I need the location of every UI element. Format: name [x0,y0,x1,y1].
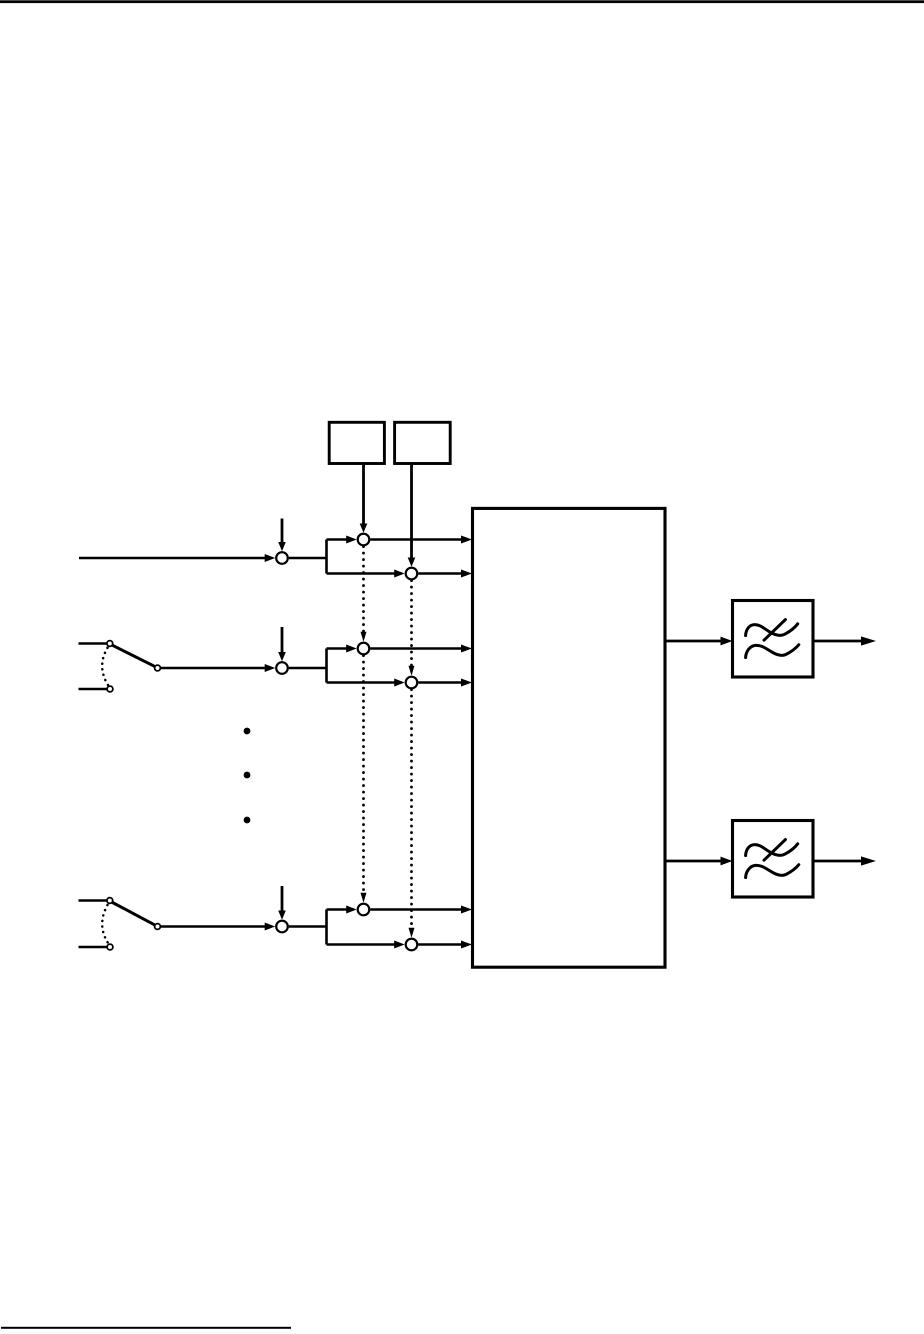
dotted bus arrow into M4 [409,666,415,676]
dotted bus: M2 to M4 [410,581,413,669]
wire: row2 gain arrow stem [281,627,284,654]
dotted bus: M4 to M6 [410,690,413,931]
switch SW1 travel arc (dotted) [102,648,108,685]
wire: row1 input [79,557,267,560]
mixer M5 [358,904,370,916]
filter F2 [733,821,814,898]
wire: row3 summer to splitter [289,925,327,928]
arrowheads [265,524,876,949]
wire: row2 switch stub upper [79,642,107,645]
wire: row2 M3 to U1 [370,647,464,650]
SW2 upper contact [107,898,113,904]
arrow row2 top into U1 [461,645,472,653]
junction circles [276,534,417,951]
arrow down into M1 from B1 [360,524,368,533]
wire: row1 splitter top branch [327,538,350,541]
arrow into F2 [721,857,733,866]
wire: row2 splitter bottom branch [327,681,398,684]
wire: row1 gain arrow stem [281,519,284,544]
dotted bus arrow into M3 [361,632,367,642]
switch SW2 travel arc (dotted) [102,905,108,943]
box B2 [395,422,451,463]
wire: U1 output 2 [665,860,724,863]
wire: row3 splitter top branch [327,908,350,911]
summer S3 [276,921,288,933]
arrow row3 top into U1 [461,906,472,914]
arrow into summer S3 [265,923,276,931]
wire: row1 splitter bottom branch [327,572,398,575]
switch contact circles [107,641,161,950]
switch SW2 lever [113,903,155,925]
wire: row1 M1 to U1 [370,538,464,541]
wire: row3 input [161,925,267,928]
dotted bus: M3 to M5 [362,656,365,896]
wire: row1 splitter bar [325,540,328,574]
mixer M3 [358,643,370,655]
mixer M6 [406,939,418,951]
SW1 upper contact [107,641,113,647]
arrow row1 bottom into U1 [461,570,472,578]
mixer M1 [358,534,370,546]
SW2 pole [155,924,161,930]
wire: row2 switch stub lower [79,688,107,691]
wire: row2 M4 to U1 [418,681,464,684]
wire: row1 summer to splitter [289,557,327,560]
filter F1 [733,601,814,678]
dotted bus arrow into M6 [409,928,415,938]
wire: B2 to mixer M2 (crosses row 1 line) [410,464,413,559]
arrow down into M2 from B2 [408,558,416,567]
wire: row3 splitter bar [325,910,328,945]
processor block U1 [473,508,666,967]
SW2 lower contact [107,944,113,950]
wire: U1 output 1 [665,640,724,643]
mixer M4 [406,677,418,689]
arrow F2 output [861,856,876,865]
arrow into F1 [721,637,733,646]
arrow into summer S1 [265,554,276,562]
box B1 [329,422,384,463]
wire: row3 gain arrow stem [281,886,284,912]
arrow into summer S2 [265,664,276,672]
arrow into mixer M3 [346,645,357,653]
arrow into mixer M6 [394,941,405,949]
arrow F1 output [861,636,876,645]
arrow into mixer M5 [346,906,357,914]
wire: F2 output [813,860,868,863]
arrow row3 bottom into U1 [461,941,472,949]
summer S2 [276,662,288,674]
wire: row3 switch stub lower [79,946,107,949]
SW1 lower contact [107,686,113,692]
wire: F1 output [813,640,868,643]
footnote rule [1,1327,291,1329]
switch SW1 lever [113,645,155,666]
arrow into mixer M2 [394,570,405,578]
arrow row2 bottom into U1 [461,679,472,687]
arrow down into S3 [278,911,286,920]
arrow into mixer M4 [394,679,405,687]
arrow down into S1 [278,542,286,551]
wire: B1 to mixer M1 [362,464,365,526]
wire: row2 input [161,667,267,670]
page top rule [0,0,924,3]
wire: row3 switch stub upper [79,899,107,902]
mixer M2 [406,568,418,580]
SW1 pole [155,665,161,671]
arrow row1 top into U1 [461,536,472,544]
wire: row3 M6 to U1 [418,943,464,946]
arrow into mixer M1 [346,536,357,544]
wire: row1 M2 to U1 [418,572,464,575]
wire: row2 splitter bar [325,649,328,683]
wire: row3 M5 to U1 [370,908,464,911]
ellipsis dots [244,728,251,824]
wire: row3 splitter bottom branch [327,943,398,946]
wire: row2 splitter top branch [327,647,350,650]
dotted bus: M1 to M3 [362,547,365,635]
arrow down into S2 [278,652,286,661]
summer S1 [276,552,288,564]
dotted bus arrow into M5 [361,893,367,903]
wire: row2 summer to splitter [289,667,327,670]
